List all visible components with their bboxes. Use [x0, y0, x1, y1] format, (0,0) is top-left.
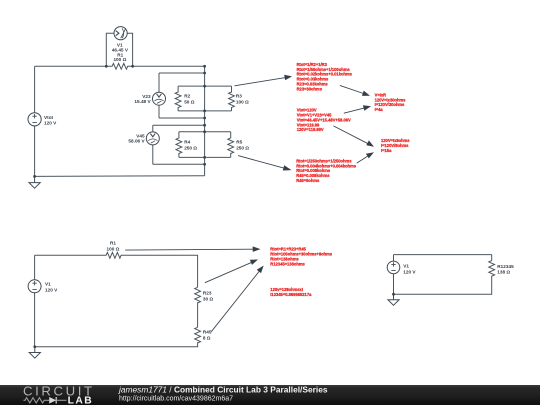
svg-text:R45=8ohms: R45=8ohms: [296, 178, 320, 183]
label V23 15.48 V: [134, 94, 151, 104]
junction: spine/R2R3 bottom: [203, 110, 206, 113]
svg-text:I=15a: I=15a: [381, 148, 392, 153]
arrow: R5 to R45 parallel note: [238, 156, 291, 171]
wire: R2R3 top rail: [178, 85, 231, 87]
wire: V45 top rail: [153, 124, 205, 126]
svg-text:R23: R23: [203, 291, 212, 296]
footer bar: [0, 385, 540, 405]
svg-text:15.48 V: 15.48 V: [134, 99, 151, 104]
svg-text:R45: R45: [203, 330, 212, 335]
svg-text:R12345=138ohms: R12345=138ohms: [270, 261, 305, 266]
svg-text:V1: V1: [45, 282, 51, 287]
arrow: parallel calc note to ohms law note: [340, 85, 370, 96]
svg-text:120V=119.99V: 120V=119.99V: [297, 127, 324, 132]
note: Vtot KVL check: [297, 108, 351, 133]
wire: R45 to bottom rail: [35, 342, 198, 347]
arrow: R2R3 box to parallel calc note: [235, 75, 293, 86]
ground (top circuit): [29, 176, 40, 188]
svg-text:I=4a: I=4a: [375, 107, 384, 112]
note: R23 parallel combination calculation: [297, 62, 353, 92]
junction: spine top corner: [203, 65, 206, 68]
svg-text:100 Ω: 100 Ω: [107, 247, 120, 252]
label R1 values (V1 46.45 V R1 100): [112, 42, 129, 62]
resistor R3 (100 ohm, vertical): [229, 86, 235, 111]
resistor R1 (100 ohm, horizontal, bottom circuit): [101, 252, 126, 258]
svg-text:50 Ω: 50 Ω: [184, 99, 195, 104]
resistor R4 (250 ohm, vertical): [176, 132, 182, 158]
logo diode symbol: [49, 397, 66, 404]
resistor R2 (50 ohm, vertical): [175, 86, 181, 111]
junction: spine/V23 bottom: [203, 117, 206, 120]
resistor R45 (8 ohm, vertical): [195, 327, 201, 343]
svg-text:250 Ω: 250 Ω: [236, 145, 249, 150]
wire: top circuit bottom horizontal: [35, 175, 205, 178]
junction: spine/R2R3 top: [203, 85, 206, 88]
arrow: R1 to series calc note: [125, 246, 260, 252]
note: ohms law with 8ohms: [381, 138, 410, 153]
wire: R1 to spine and spine down: [133, 66, 205, 175]
svg-text:100 Ω: 100 Ω: [236, 99, 249, 104]
junction: bottom-left ground node: [33, 345, 36, 348]
voltmeter V1: [114, 27, 127, 40]
svg-text:R12345: R12345: [497, 264, 514, 269]
svg-text:http://circuitlab.com/cav43986: http://circuitlab.com/cav439862m6a7: [119, 396, 233, 403]
junction: spine/V45 top: [203, 124, 206, 127]
note: ohms law with 30ohms: [375, 92, 407, 112]
ground (bottom-right circuit): [388, 294, 399, 305]
arrow: Vtot note to ohms law 8ohm note: [333, 126, 374, 147]
svg-text:Vtot: Vtot: [44, 115, 54, 120]
label R45 8 ohm: [203, 330, 212, 341]
svg-text:R23=30ohms: R23=30ohms: [297, 86, 323, 91]
svg-text:V1: V1: [403, 264, 409, 269]
wire: V23 lower lead: [158, 105, 160, 118]
junction: R1 right node: [131, 65, 134, 68]
wire: bottom-right right vertical lower: [394, 276, 492, 295]
svg-text:100 Ω: 100 Ω: [113, 57, 126, 62]
label V1 120 V (bottom-left): [45, 282, 58, 293]
note: total current calculation: [270, 287, 312, 297]
wire: voltmeter V1 left lead: [106, 33, 114, 66]
arrow: R23 to series calc note: [205, 260, 258, 283]
svg-text:R5: R5: [236, 140, 242, 145]
resistor R5 (250 ohm, vertical): [228, 132, 234, 158]
resistor R12345 (138 ohm, vertical): [489, 261, 495, 277]
junction: bottom-right ground node: [392, 293, 395, 296]
junction: spine/V45 bottom: [203, 163, 206, 166]
wire: R1 right to corner and down: [126, 255, 198, 287]
resistor R23 (30 ohm, vertical): [195, 287, 201, 303]
svg-text:120 V: 120 V: [45, 287, 58, 292]
svg-text:120 V: 120 V: [403, 269, 416, 274]
wire: V23 bottom rail: [159, 117, 205, 119]
label V1 120 V (bottom-right): [403, 264, 416, 275]
arrow: R45 parallel note to ohms law 8ohm note: [357, 152, 374, 163]
label R1 100 ohm (bottom circuit): [107, 241, 120, 252]
label R3 100 ohm: [236, 94, 249, 105]
voltage source V1 (bottom-right): [387, 261, 400, 274]
voltage source Vtot: [28, 113, 41, 126]
label Vtot 120 V: [44, 115, 57, 126]
junction: R1 left node: [105, 65, 108, 68]
svg-text:jamesm1771 / Combined Circuit: jamesm1771 / Combined Circuit Lab 3 Para…: [118, 385, 328, 395]
wire: V45 bottom rail: [153, 163, 205, 165]
wire: V23 upper lead: [158, 73, 160, 92]
svg-text:30 Ω: 30 Ω: [203, 296, 214, 301]
wire: bottom-left circuit left vertical: [34, 255, 36, 346]
voltage source V1 (bottom-left): [28, 280, 41, 293]
wire: R4R5 bottom rail: [179, 156, 231, 158]
arrow: Vtot note to ohms law note: [344, 105, 371, 113]
wire: V45 lower lead: [152, 145, 154, 164]
svg-text:120 V: 120 V: [44, 120, 57, 125]
svg-text:R1: R1: [110, 241, 116, 246]
resistor R1 (100 ohm, horizontal): [106, 63, 132, 69]
junction: ground node: [33, 175, 36, 178]
wire: bottom-right circuit top rail: [394, 254, 492, 256]
wire: R2R3 bottom rail: [178, 110, 231, 112]
voltmeter V23: [153, 92, 166, 105]
ground (bottom-left circuit): [29, 347, 40, 358]
wire: bottom-right left vertical: [393, 255, 395, 295]
label R23 30 ohm: [203, 291, 214, 302]
svg-text:R2: R2: [184, 94, 190, 99]
wire: V45 upper lead: [152, 125, 154, 132]
junction: spine/V23 top: [203, 72, 206, 75]
svg-text:R3: R3: [236, 94, 242, 99]
junction: spine/R4R5 bottom: [203, 156, 206, 159]
note: R45 parallel combination calculation: [296, 158, 357, 183]
svg-text:138 Ω: 138 Ω: [497, 270, 510, 275]
label R2 50 ohm: [184, 94, 195, 105]
svg-text:R4: R4: [184, 140, 190, 145]
label R12345 138 ohm: [497, 264, 514, 275]
svg-text:I12345=0.869565217a: I12345=0.869565217a: [270, 292, 312, 297]
svg-text:LAB: LAB: [68, 396, 94, 405]
wire: top circuit top horizontal to spine: [35, 65, 107, 67]
svg-text:8 Ω: 8 Ω: [203, 335, 211, 340]
wire: R4R5 top rail: [179, 131, 231, 133]
junction: spine/R4R5 top: [203, 130, 206, 133]
label R5 250 ohm: [236, 140, 249, 151]
logo resistor squiggle: [24, 398, 50, 403]
wire: between R23 and R45: [197, 302, 199, 327]
label R4 250 ohm: [184, 140, 197, 151]
wire: voltmeter V1 right lead: [127, 33, 132, 66]
label V45 58.06 V: [128, 133, 145, 143]
arrow: R45 to series calc note: [211, 266, 263, 332]
wire: top circuit left vertical (Vtot branch): [34, 66, 36, 176]
wire: bottom-left circuit top rail: [35, 254, 102, 256]
voltmeter V45: [146, 132, 159, 145]
wire: V23 top rail: [159, 72, 205, 74]
svg-text:58.06 V: 58.06 V: [128, 138, 145, 143]
wire: bottom-right right vertical upper: [491, 255, 493, 261]
svg-text:250 Ω: 250 Ω: [184, 145, 197, 150]
note: series total resistance calculation: [270, 247, 332, 267]
